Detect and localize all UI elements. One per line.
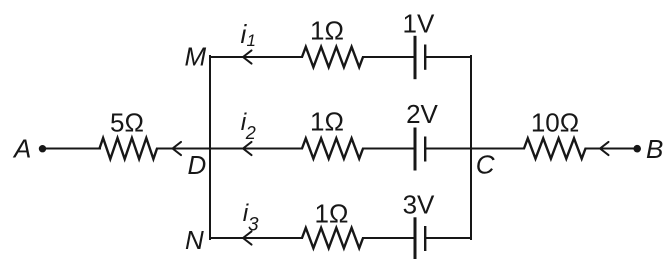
svg-text:C: C <box>476 150 495 180</box>
svg-text:1Ω: 1Ω <box>315 198 349 228</box>
svg-text:D: D <box>188 150 207 180</box>
svg-text:M: M <box>185 41 207 71</box>
svg-text:3: 3 <box>248 214 259 235</box>
svg-text:2: 2 <box>245 123 256 143</box>
svg-text:1V: 1V <box>402 8 434 38</box>
svg-text:1Ω: 1Ω <box>310 106 344 136</box>
svg-text:1Ω: 1Ω <box>310 16 344 46</box>
svg-text:2V: 2V <box>406 99 438 129</box>
svg-text:B: B <box>646 134 663 164</box>
svg-text:5Ω: 5Ω <box>110 108 144 138</box>
svg-text:1: 1 <box>247 31 256 50</box>
svg-text:10Ω: 10Ω <box>531 108 579 138</box>
svg-text:N: N <box>185 225 204 255</box>
svg-text:A: A <box>12 134 31 164</box>
svg-text:3V: 3V <box>403 189 435 219</box>
